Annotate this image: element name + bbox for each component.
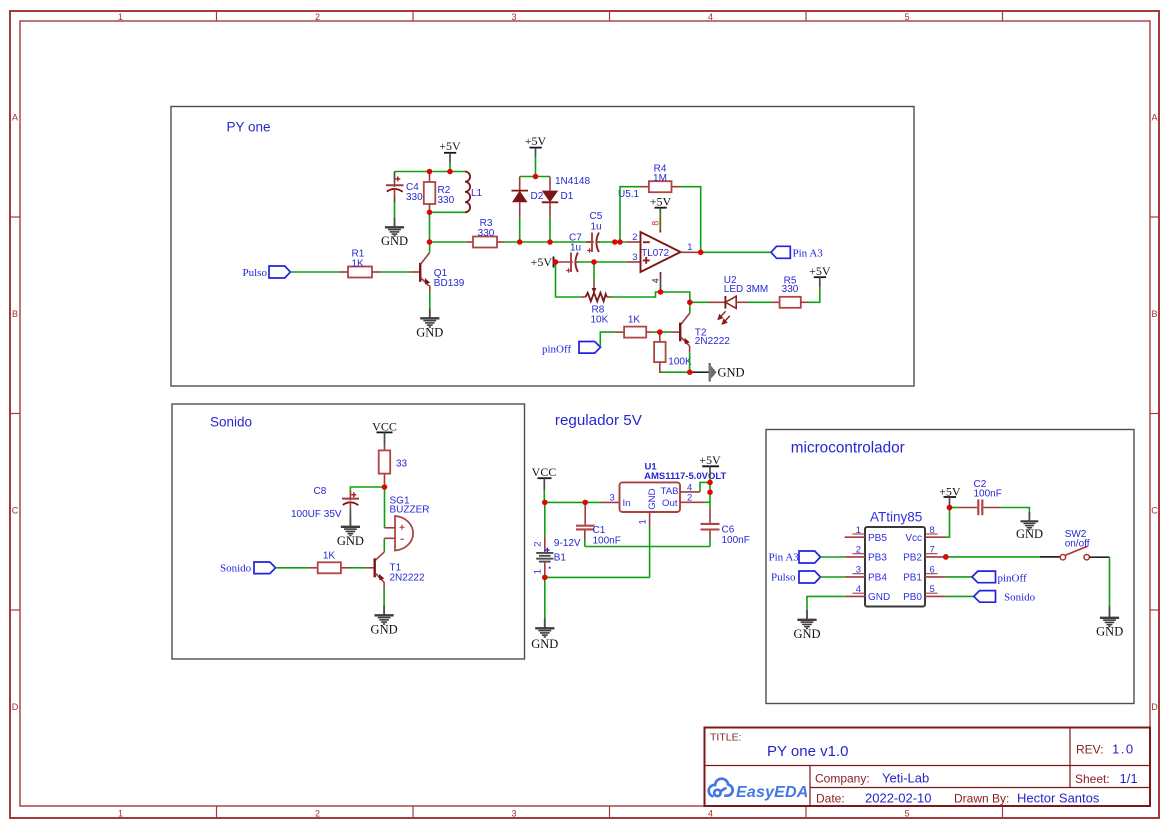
wire +5V/C7 node down to R8: [556, 262, 582, 297]
svg-text:1.0: 1.0: [1112, 742, 1135, 757]
node junction C7 left: [553, 259, 559, 265]
switch SW2: [1060, 546, 1089, 560]
pin 2 PB3: [845, 545, 888, 564]
svg-text:1: 1: [533, 569, 544, 574]
svg-text:2: 2: [856, 545, 861, 556]
power VCC (regulador): [532, 465, 557, 490]
svg-text:PY one: PY one: [227, 120, 271, 135]
svg-text:3: 3: [632, 252, 637, 263]
svg-text:GND: GND: [337, 534, 364, 548]
svg-text:3: 3: [856, 565, 861, 576]
wire R4 to output: [680, 187, 701, 253]
ground GND (C4): [385, 218, 404, 237]
port Pin A3: [771, 246, 790, 258]
capacitor C6: [701, 518, 720, 539]
wire LED node down to T2 collector: [689, 302, 691, 313]
svg-text:7: 7: [930, 545, 935, 556]
wire C7 to op-amp pin3: [578, 261, 627, 263]
svg-text:1: 1: [856, 525, 861, 536]
svg-text:B: B: [12, 309, 18, 319]
svg-text:GND: GND: [531, 637, 558, 651]
wire Pin A3 to pin 2: [821, 556, 845, 558]
node junction diode rail: [533, 174, 539, 180]
wire output to Pin A3: [701, 251, 771, 253]
svg-text:1/1: 1/1: [1120, 771, 1138, 786]
resistor 1K (T2 base): [615, 327, 653, 338]
svg-text:4: 4: [708, 12, 713, 22]
svg-text:Drawn By:: Drawn By:: [954, 792, 1009, 806]
svg-text:GND: GND: [1016, 527, 1043, 541]
svg-text:+5V: +5V: [525, 134, 547, 148]
svg-text:100nF: 100nF: [974, 489, 1002, 500]
resistor 33: [379, 445, 391, 487]
wire junction to C8: [350, 487, 384, 495]
resistor 1K (T1 base): [309, 562, 350, 573]
pin 8 Vcc: [905, 525, 945, 544]
op-amp U5.1 TL072: [641, 232, 681, 272]
power VCC (Sonido): [372, 420, 397, 446]
svg-text:TAB: TAB: [661, 486, 679, 497]
frame column labels top: [118, 12, 910, 22]
svg-text:1u: 1u: [570, 243, 581, 254]
svg-text:1K: 1K: [323, 551, 336, 562]
ground GND (micro left): [797, 610, 816, 629]
svg-text:330: 330: [438, 195, 455, 206]
wire 100K to emitter node: [662, 371, 690, 373]
svg-text:L1: L1: [471, 188, 483, 199]
svg-text:microcontrolador: microcontrolador: [791, 439, 905, 456]
port Sonido (micro): [974, 591, 996, 603]
Sonido block box: [172, 404, 525, 659]
svg-text:AMS1117-5.0VOLT: AMS1117-5.0VOLT: [644, 471, 726, 482]
svg-text:Pulso: Pulso: [243, 267, 268, 279]
pin 6 PB1: [903, 565, 945, 584]
capacitor C7: [554, 253, 580, 273]
svg-text:U5.1: U5.1: [618, 189, 640, 200]
node junction rail-+5V: [447, 169, 453, 175]
wire collector node to R3: [430, 241, 467, 243]
ground GND (C8): [341, 517, 360, 536]
wire pin 5 to Sonido port: [946, 595, 974, 597]
svg-text:Hector Santos: Hector Santos: [1017, 791, 1100, 806]
EasyEDA logo cloud: [709, 779, 733, 797]
ground GND (regulador): [535, 619, 554, 638]
wire top rail: [395, 171, 466, 173]
wire B1 bottom to ground: [544, 577, 546, 618]
title block outline: [705, 728, 1151, 807]
svg-text:2: 2: [632, 232, 637, 243]
wire bottom rail C1-C6: [585, 546, 710, 548]
node junction pin2 a: [612, 239, 618, 245]
svg-text:C5: C5: [590, 211, 603, 222]
power +5V (regulador): [699, 453, 721, 478]
frame row ticks left: [10, 217, 20, 610]
svg-text:B: B: [1151, 309, 1157, 319]
svg-text:A: A: [12, 113, 18, 123]
svg-text:BD139: BD139: [434, 278, 465, 289]
svg-text:2: 2: [533, 542, 544, 547]
wire Sonido port to 1K: [276, 567, 309, 569]
svg-text:1K: 1K: [352, 259, 365, 270]
svg-text:PB0: PB0: [903, 592, 922, 603]
svg-text:GND: GND: [416, 326, 443, 340]
svg-text:regulador 5V: regulador 5V: [555, 412, 643, 429]
node junction 33/C8/buzzer: [382, 484, 388, 490]
svg-text:GND: GND: [647, 488, 658, 509]
svg-text:100nF: 100nF: [722, 535, 750, 546]
svg-text:ATtiny85: ATtiny85: [870, 510, 922, 525]
wire diode top rail: [520, 176, 550, 178]
svg-text:Sheet:: Sheet:: [1075, 772, 1110, 786]
svg-text:PB4: PB4: [868, 573, 887, 584]
node junction TAB/+5V: [707, 480, 713, 486]
svg-text:4: 4: [856, 584, 861, 595]
frame row labels right: [1151, 113, 1158, 713]
svg-text:GND: GND: [793, 627, 820, 641]
U1 pin 1 (GND) wire: [649, 512, 651, 526]
svg-text:3: 3: [511, 12, 516, 22]
LED U2: [718, 296, 748, 324]
svg-text:C: C: [1151, 506, 1158, 516]
wire Pulso to R1: [290, 271, 339, 273]
svg-text:2N2222: 2N2222: [390, 573, 425, 584]
svg-text:D2: D2: [531, 191, 544, 202]
svg-text:Pin A3: Pin A3: [769, 551, 800, 563]
node junction output: [698, 250, 704, 256]
wire C2 to ground: [1000, 508, 1029, 514]
wire pin3 node down to R8 arrow: [593, 262, 595, 281]
svg-text:Date:: Date:: [816, 792, 845, 806]
resistor R8 (with arrow): [581, 281, 612, 301]
svg-text:Vcc: Vcc: [905, 533, 922, 544]
svg-text:+5V: +5V: [439, 139, 461, 153]
svg-text:2022-02-10: 2022-02-10: [865, 791, 932, 806]
svg-text:33: 33: [396, 459, 408, 470]
pin 3 PB4: [845, 565, 888, 584]
wire R8 to pin4 node: [612, 292, 661, 297]
wire T1 emitter to ground: [383, 589, 385, 606]
svg-text:2: 2: [315, 12, 320, 22]
ground GND (T1): [375, 606, 394, 625]
node junction T2 base: [657, 329, 663, 335]
op-amp pin 4 stem: [650, 272, 660, 292]
svg-text:Sonido: Sonido: [1004, 592, 1036, 604]
svg-text:5: 5: [904, 12, 909, 22]
wire LED to R5: [748, 301, 772, 303]
svg-text:Pulso: Pulso: [771, 572, 796, 584]
svg-text:Company:: Company:: [815, 772, 870, 786]
inductor L1: [465, 172, 470, 213]
node junction +5V/C2: [947, 505, 953, 511]
svg-text:3: 3: [610, 493, 615, 504]
resistor R2: [424, 172, 436, 213]
wire buzzer to T1 collector: [383, 538, 385, 552]
frame column ticks bottom: [217, 806, 1003, 818]
node junction pin2 b: [617, 239, 623, 245]
svg-text:PY one v1.0: PY one v1.0: [767, 743, 848, 760]
ground flag GND (T2): [693, 363, 745, 382]
node junction B1 bottom: [542, 575, 548, 581]
transistor T1: [374, 552, 385, 589]
pin 5 PB0: [903, 584, 945, 603]
U1 pin 2 (Out) wire: [680, 501, 704, 503]
node junction pin4: [658, 289, 664, 295]
svg-text:GND: GND: [1096, 625, 1123, 639]
frame column ticks top: [217, 11, 1003, 21]
diode D2: [512, 177, 529, 219]
wire C6 to bottom rail: [709, 539, 711, 547]
wire L1 bottom to R2 bottom: [430, 211, 466, 213]
svg-text:1: 1: [687, 242, 692, 253]
wire R5 to +5V: [808, 287, 820, 302]
node junction T2 emitter/GND: [687, 369, 693, 375]
svg-text:+5V: +5V: [531, 255, 553, 269]
svg-text:8: 8: [650, 221, 660, 226]
svg-text:+5V: +5V: [699, 453, 721, 467]
wire C4 to ground: [394, 202, 396, 218]
PY one block box: [171, 107, 914, 387]
wire D2 to node row: [519, 218, 521, 242]
ground GND (SW2): [1100, 608, 1119, 627]
svg-text:1: 1: [638, 519, 649, 524]
svg-text:GND: GND: [381, 234, 408, 248]
svg-text:4: 4: [650, 278, 660, 283]
capacitor C2: [950, 500, 1001, 516]
wire pin4 node to LED node: [661, 292, 690, 302]
svg-text:2: 2: [687, 493, 692, 504]
svg-text:In: In: [623, 498, 631, 509]
svg-text:C8: C8: [314, 486, 327, 497]
wire +5V to diode rail: [535, 157, 537, 177]
svg-text:3: 3: [511, 808, 516, 818]
svg-text:330: 330: [478, 228, 495, 239]
svg-text:PB2: PB2: [903, 553, 922, 564]
pin 1 PB5: [845, 525, 888, 544]
svg-text:pinOff: pinOff: [998, 573, 1027, 585]
capacitor C1: [576, 502, 595, 546]
svg-text:REV:: REV:: [1076, 743, 1104, 757]
transistor Q1: [419, 242, 430, 292]
diode D1: [542, 177, 558, 219]
svg-text:4: 4: [687, 482, 692, 493]
wire +5V down to Vcc pin: [946, 506, 950, 538]
wire R2/L1 to collector node: [429, 212, 431, 242]
power +5V (top rail): [439, 139, 461, 163]
wire pin 7 to switch: [946, 556, 1040, 558]
wire VCC down to main node: [543, 490, 545, 502]
svg-text:VCC: VCC: [532, 465, 557, 479]
resistor R3: [466, 237, 505, 248]
U1 pin 4 (TAB) wire: [680, 491, 700, 493]
svg-text:4: 4: [708, 808, 713, 818]
wire +5V stem to rail: [449, 163, 451, 172]
chip ATtiny85 body: [865, 527, 925, 607]
svg-text:C6: C6: [722, 525, 735, 536]
port pinOff (micro): [972, 571, 996, 583]
op-amp output pin: [681, 251, 701, 253]
svg-text:C: C: [12, 506, 19, 516]
svg-text:BUZZER: BUZZER: [390, 505, 430, 516]
node junction D2: [517, 239, 523, 245]
capacitor C8: [342, 491, 359, 517]
svg-text:GND: GND: [371, 623, 398, 637]
svg-text:5: 5: [930, 584, 935, 595]
pin 7 PB2: [903, 545, 945, 564]
svg-text:PB1: PB1: [903, 573, 922, 584]
svg-text:2N2222: 2N2222: [695, 336, 730, 347]
transistor T2: [679, 313, 690, 352]
svg-text:+5V: +5V: [650, 195, 672, 209]
wire Q1 emitter to ground: [429, 292, 431, 309]
wire pin2 node to R4 (feedback up): [620, 187, 641, 242]
battery B1: [533, 502, 554, 577]
node junction LED/T2: [687, 300, 693, 306]
node junction rail-R2: [427, 169, 433, 175]
ground GND (Q1): [420, 309, 439, 328]
svg-text:330: 330: [782, 284, 799, 295]
svg-text:TITLE:: TITLE:: [710, 732, 742, 744]
svg-text:10K: 10K: [591, 315, 609, 326]
svg-text:Sonido: Sonido: [210, 415, 252, 430]
wire 1K to T2 base: [653, 331, 670, 333]
resistor 100K: [654, 332, 666, 372]
node junction Out/+5V: [707, 489, 713, 495]
node junction pin 7: [943, 554, 949, 560]
svg-text:6: 6: [930, 565, 935, 576]
svg-text:pinOff: pinOff: [542, 344, 571, 356]
svg-text:9-12V: 9-12V: [554, 538, 581, 549]
wire D1 to node row: [549, 218, 551, 242]
capacitor C5: [586, 233, 600, 253]
ground GND (C2): [1020, 512, 1038, 529]
wire C5 to op-amp pin2: [599, 241, 626, 243]
svg-text:D: D: [12, 702, 19, 712]
node junction R2-L1: [427, 210, 433, 216]
power +5V (diodes): [525, 134, 547, 157]
svg-text:100UF 35V: 100UF 35V: [291, 509, 342, 520]
microcontrolador block box: [766, 430, 1134, 704]
svg-text:1: 1: [118, 808, 123, 818]
wire pin 6 to pinOff port: [946, 576, 973, 578]
resistor R4: [641, 181, 681, 192]
wire pinOff to 1K: [600, 332, 615, 346]
svg-text:GND: GND: [718, 366, 745, 380]
svg-text:D: D: [1151, 702, 1158, 712]
frame column labels bottom: [118, 808, 910, 818]
node junction D1: [547, 239, 553, 245]
wire R3 to diode node: [505, 241, 593, 243]
resistor R5: [772, 297, 809, 308]
frame row ticks right: [1150, 217, 1159, 610]
svg-text:1u: 1u: [591, 222, 602, 233]
wire Pulso to pin 3: [821, 576, 845, 578]
pin 4 GND: [845, 584, 891, 603]
svg-text:1K: 1K: [628, 315, 641, 326]
power +5V (R5): [809, 264, 831, 287]
node junction C1 top: [582, 500, 588, 506]
regulator U1 AMS1117: [620, 482, 681, 512]
svg-text:TL072: TL072: [641, 248, 669, 259]
wire R1 to Q1 base: [381, 271, 411, 273]
svg-text:100nF: 100nF: [593, 535, 621, 546]
wire GND rail bottom: [545, 576, 650, 578]
svg-text:PB5: PB5: [868, 533, 887, 544]
svg-text:100K: 100K: [668, 357, 692, 368]
op-amp pin 8 stem and +5V: [650, 195, 672, 233]
frame row labels left: [12, 113, 19, 713]
svg-text:on/off: on/off: [1065, 539, 1090, 550]
svg-text:EasyEDA: EasyEDA: [736, 784, 809, 801]
svg-text:Sonido: Sonido: [220, 563, 252, 575]
svg-text:1: 1: [118, 12, 123, 22]
wire switch to ground: [1089, 556, 1109, 558]
wire pin 4 to ground: [807, 596, 845, 610]
node junction collector: [427, 239, 433, 245]
svg-text:1N4148: 1N4148: [555, 176, 590, 187]
svg-text:330: 330: [406, 192, 423, 203]
node junction VCC/B1: [542, 500, 548, 506]
capacitor C4: [386, 172, 404, 203]
wire node to LED: [690, 301, 708, 303]
svg-text:Yeti-Lab: Yeti-Lab: [882, 771, 929, 786]
wire main row to U1 In: [545, 501, 601, 503]
resistor R1: [340, 267, 381, 278]
svg-text:LED 3MM: LED 3MM: [724, 284, 768, 295]
wire T2 emitter down: [689, 352, 691, 372]
svg-text:2: 2: [315, 808, 320, 818]
node junction pin3: [591, 259, 597, 265]
svg-text:A: A: [1151, 113, 1157, 123]
svg-text:VCC: VCC: [372, 420, 397, 434]
svg-text:PB3: PB3: [868, 553, 887, 564]
power +5V (C7 row): [531, 255, 554, 269]
svg-text:1M: 1M: [653, 173, 667, 184]
svg-text:Out: Out: [662, 498, 678, 509]
svg-text:5: 5: [904, 808, 909, 818]
svg-text:B1: B1: [554, 552, 567, 563]
svg-text:8: 8: [930, 525, 935, 536]
buzzer SG1: [384, 516, 413, 551]
power +5V (micro): [939, 484, 961, 505]
svg-text:GND: GND: [868, 592, 890, 603]
wire 1K to T1 base: [350, 567, 365, 569]
svg-text:Pin A3: Pin A3: [793, 248, 824, 260]
svg-text:+5V: +5V: [809, 264, 831, 278]
wire +5V vertical to C6: [709, 478, 711, 508]
svg-text:D1: D1: [561, 191, 574, 202]
wire junction down to buzzer: [384, 487, 386, 528]
